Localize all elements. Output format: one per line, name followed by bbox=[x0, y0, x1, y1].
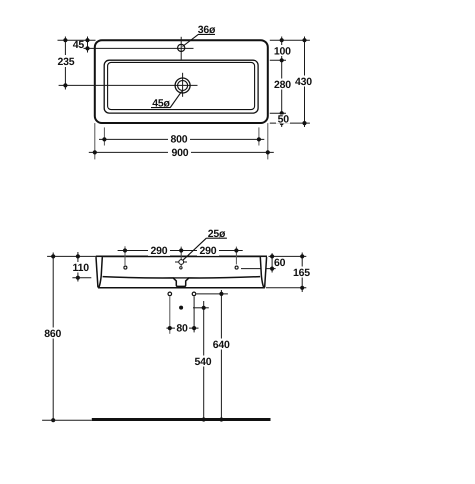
dimension 860 (vertical, far left) bbox=[42, 253, 64, 423]
below-basin hole circle right bbox=[192, 292, 196, 296]
right end wall inner edge bbox=[260, 257, 263, 287]
faucet hole crosshair horizontal / 45 extension line bbox=[84, 47, 194, 49]
extension vertical below left hole bbox=[169, 296, 171, 333]
extension line 60 bottom (y=268.6) bbox=[241, 268, 276, 270]
drain inner circle 45ø bbox=[178, 81, 188, 91]
extension line top-right (y=40.2) bbox=[270, 39, 310, 41]
dimension 165 (vertical, far right of front view) bbox=[292, 253, 313, 293]
small hole mark left bbox=[124, 266, 127, 269]
svg-text:900: 900 bbox=[172, 147, 189, 159]
25ø hole circle bbox=[179, 260, 184, 265]
basin outer outline (top view) bbox=[95, 40, 268, 123]
extension verticals for 800 bbox=[103, 127, 105, 145]
right end wall outer edge bbox=[265, 257, 267, 287]
svg-text:165: 165 bbox=[293, 267, 310, 279]
svg-text:110: 110 bbox=[73, 262, 90, 274]
svg-text:280: 280 bbox=[274, 79, 291, 91]
label 36ø with leader bbox=[183, 24, 217, 46]
left end wall outer edge bbox=[96, 257, 98, 287]
extension verticals for 900 bbox=[94, 123, 96, 159]
basin bottom edge (front view) bbox=[98, 287, 265, 289]
svg-text:100: 100 bbox=[274, 45, 291, 57]
extension line top right of front view bbox=[269, 255, 307, 257]
25ø hole crosshair vertical bbox=[180, 247, 182, 266]
drain outer circle bbox=[175, 78, 190, 93]
dimension 60 (vertical, right of front view) bbox=[270, 253, 288, 272]
svg-text:235: 235 bbox=[58, 56, 75, 68]
dimension 80 (horizontal) bbox=[166, 323, 198, 335]
svg-text:860: 860 bbox=[44, 328, 61, 340]
svg-text:80: 80 bbox=[176, 323, 188, 335]
top edge extension to left bbox=[47, 255, 96, 257]
basin rim outer line bbox=[104, 60, 258, 113]
dimension 110 (vertical, left of front view) bbox=[70, 252, 91, 282]
extension line rim top right (y=60.3) bbox=[270, 59, 286, 61]
extension line bottom-right (y=123.1) bbox=[270, 122, 310, 124]
dimension 640 (vertical) bbox=[211, 290, 233, 422]
svg-text:800: 800 bbox=[171, 134, 188, 146]
floor extension line to 860 bbox=[42, 419, 92, 421]
small hole mark center bbox=[180, 267, 182, 269]
svg-text:50: 50 bbox=[278, 114, 290, 126]
faucet hole circle 36ø bbox=[178, 44, 185, 51]
dimension 900 (horizontal) bbox=[89, 147, 274, 159]
25ø hole crosshair horizontal bbox=[175, 261, 187, 263]
dimension 800 (horizontal) bbox=[99, 134, 264, 146]
extension line top-left (y=40.2) bbox=[58, 39, 96, 41]
right end wall (white wedge) bbox=[260, 257, 266, 287]
svg-text:430: 430 bbox=[295, 76, 312, 88]
svg-text:640: 640 bbox=[213, 339, 230, 351]
faucet hole crosshair vertical bbox=[180, 37, 182, 60]
dimension 290/290 (horizontal, above front view) bbox=[118, 245, 243, 257]
640 top extension (y=293.9) bbox=[197, 293, 228, 295]
extension vertical right faucet (x=236.4) bbox=[235, 247, 237, 265]
basin rim inner line bbox=[108, 62, 255, 109]
540 top extension (y=307.8) bbox=[193, 307, 209, 309]
small hole mark right bbox=[235, 266, 238, 269]
svg-text:60: 60 bbox=[274, 257, 286, 269]
fixing dot (filled) bbox=[179, 306, 183, 310]
dimension chain 100/280/50 (vertical, right) bbox=[272, 37, 292, 128]
floor line bbox=[92, 418, 271, 421]
dimension 235 (vertical, left) bbox=[56, 37, 76, 90]
label 45ø with leader bbox=[151, 91, 182, 109]
extension vertical below right hole bbox=[193, 296, 195, 332]
extension line rim bottom right (y=113.2) bbox=[270, 112, 286, 114]
drain centerline horizontal bbox=[59, 84, 198, 86]
below-basin hole circle left bbox=[168, 292, 172, 296]
drain funnel mouth top line bbox=[173, 277, 189, 279]
svg-text:290: 290 bbox=[200, 245, 217, 257]
label 25ø with leader bbox=[183, 228, 227, 260]
extension vertical left faucet (x=125) bbox=[124, 246, 126, 265]
dimension 45 (vertical, top-left) bbox=[73, 37, 90, 53]
drain crosshair vertical bbox=[182, 73, 184, 97]
basin underside line with drain funnel bbox=[103, 277, 261, 287]
dimension 430 (vertical, far right) bbox=[294, 37, 315, 128]
svg-text:290: 290 bbox=[151, 245, 168, 257]
left end wall (white wedge) bbox=[96, 257, 102, 287]
basin top edge (front view) bbox=[96, 255, 267, 257]
svg-text:45: 45 bbox=[73, 39, 85, 51]
left end wall inner edge bbox=[99, 257, 102, 287]
svg-text:540: 540 bbox=[195, 356, 212, 368]
extension line bottom right of front view bbox=[266, 287, 306, 289]
dimension 540 (vertical) bbox=[193, 301, 215, 422]
